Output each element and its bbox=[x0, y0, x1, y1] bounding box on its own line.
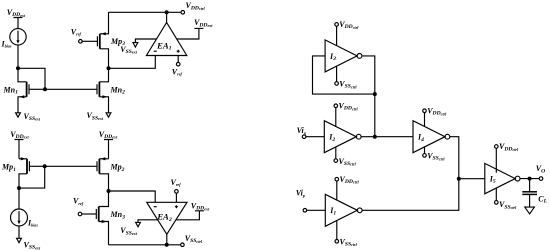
ground (CL) bbox=[525, 207, 535, 214]
wire I5 output bbox=[520, 178, 539, 180]
supply VSS_ctrl (I3) bbox=[335, 66, 358, 90]
ground VSS_ext (Mn2) bbox=[87, 111, 111, 121]
wire Ibias to VSS bbox=[18, 226, 20, 238]
inverter I4 bbox=[413, 121, 450, 153]
wire EA2 + input to Vref bbox=[175, 193, 177, 202]
transistor Mn2 bbox=[97, 68, 125, 113]
wire node to EA1 inverting input bbox=[109, 56, 156, 69]
terminal Vip bbox=[296, 189, 326, 213]
node X bbox=[373, 135, 377, 139]
wire I3 input loop bbox=[313, 56, 375, 94]
current source Ibias (top) bbox=[1, 29, 27, 49]
wire VSS_ctrl rail bbox=[109, 244, 181, 246]
supply VDD_ext (Mp2) bbox=[99, 130, 118, 159]
terminal Vref (EA1 +) bbox=[172, 62, 183, 76]
transistor Mn3 bbox=[96, 191, 125, 245]
transistor Mn1 bbox=[3, 68, 46, 113]
wire node X to I4 input bbox=[375, 136, 413, 138]
capacitor CL bbox=[522, 179, 547, 208]
supply VDD_ctrl (I5) bbox=[495, 142, 519, 173]
supply VDD_ctrl (I1) bbox=[335, 175, 359, 200]
supply VDD_ctrl (I2) bbox=[334, 102, 358, 127]
node output bbox=[528, 177, 532, 181]
wire VDD_ctrl rail bbox=[109, 11, 182, 13]
terminal Vref (EA2 +) bbox=[171, 178, 182, 193]
supply VSS_ctrl (I5) bbox=[495, 188, 518, 210]
wire Mp1 drain to Ibias bbox=[18, 188, 20, 209]
node EA1 output bbox=[165, 10, 169, 14]
supply VDD_ext (Mp1) bbox=[10, 130, 29, 159]
supply VDD_ext top-left bbox=[7, 8, 26, 29]
wire I2 output to node X bbox=[361, 136, 375, 138]
wire I4 output to node Y bbox=[450, 137, 459, 179]
inverter I2 bbox=[324, 121, 361, 153]
inverter I3 bbox=[325, 40, 362, 72]
current source Ibias (bottom) bbox=[11, 209, 39, 227]
supply VSS_ext (EA2) bbox=[120, 220, 157, 237]
terminal VSS_ctrl bbox=[181, 234, 203, 247]
terminal VDD_ctrl bbox=[181, 1, 205, 14]
wire I1 output to node Y bbox=[362, 179, 459, 211]
supply VDD_ctrl (I4) bbox=[423, 107, 447, 127]
supply VDD_ext (EA1) bbox=[177, 18, 214, 39]
junction Mp1 gate bbox=[43, 164, 47, 168]
node Mp2/Mn3 drain bbox=[107, 189, 111, 193]
node Mp3/Mn2 drain bbox=[107, 66, 111, 70]
node Y bbox=[457, 177, 461, 181]
wire gate rail Mp1 to Mp2 bbox=[45, 165, 97, 167]
wire EA1 + input to Vref bbox=[177, 56, 179, 63]
node Mp1 drain bbox=[17, 186, 21, 190]
op-amp EA1 bbox=[146, 12, 186, 55]
supply VDD_ctrl (I3) bbox=[335, 20, 359, 46]
supply VSS_ctrl (I1) bbox=[335, 221, 358, 248]
ground VSS_ext (Mn1) bbox=[16, 112, 41, 122]
supply VSS_ctrl (I4) bbox=[423, 147, 446, 162]
transistor Mp3 bbox=[97, 12, 125, 68]
supply VSS_ctrl (I2) bbox=[334, 147, 357, 167]
wire node Y to I5 input bbox=[459, 178, 485, 180]
terminal Vin bbox=[297, 126, 325, 138]
ground VSS_ext (Ibias) bbox=[17, 238, 41, 250]
node EA2 output bbox=[165, 243, 169, 247]
wire node A to gate rail bbox=[18, 68, 45, 89]
terminal Vref (Mn3 gate) bbox=[73, 197, 96, 216]
op-amp EA2 bbox=[147, 202, 187, 245]
inverter I5 bbox=[485, 163, 520, 193]
wire Mp1 diode connection bbox=[19, 166, 45, 188]
inverter I1 bbox=[325, 194, 362, 226]
wire gate rail Mn1 to Mn2 bbox=[45, 88, 97, 90]
transistor Mp1 bbox=[1, 157, 45, 188]
wire feedback to node X bbox=[374, 94, 376, 137]
supply VSS_ext (EA1) bbox=[120, 39, 156, 55]
terminal Vo bbox=[536, 164, 545, 180]
junction gate rail bbox=[43, 87, 47, 91]
wire node to EA2 inverting input bbox=[109, 191, 156, 202]
supply VDD_ext (EA2) bbox=[176, 202, 210, 220]
wire Ibias to node A bbox=[17, 45, 19, 68]
node A bbox=[16, 66, 20, 70]
transistor Mp2 bbox=[97, 157, 125, 191]
wire I3 output bbox=[362, 56, 375, 94]
terminal Vref (Mp3 gate) bbox=[71, 28, 98, 44]
node I3 feedback tie bbox=[373, 92, 377, 96]
